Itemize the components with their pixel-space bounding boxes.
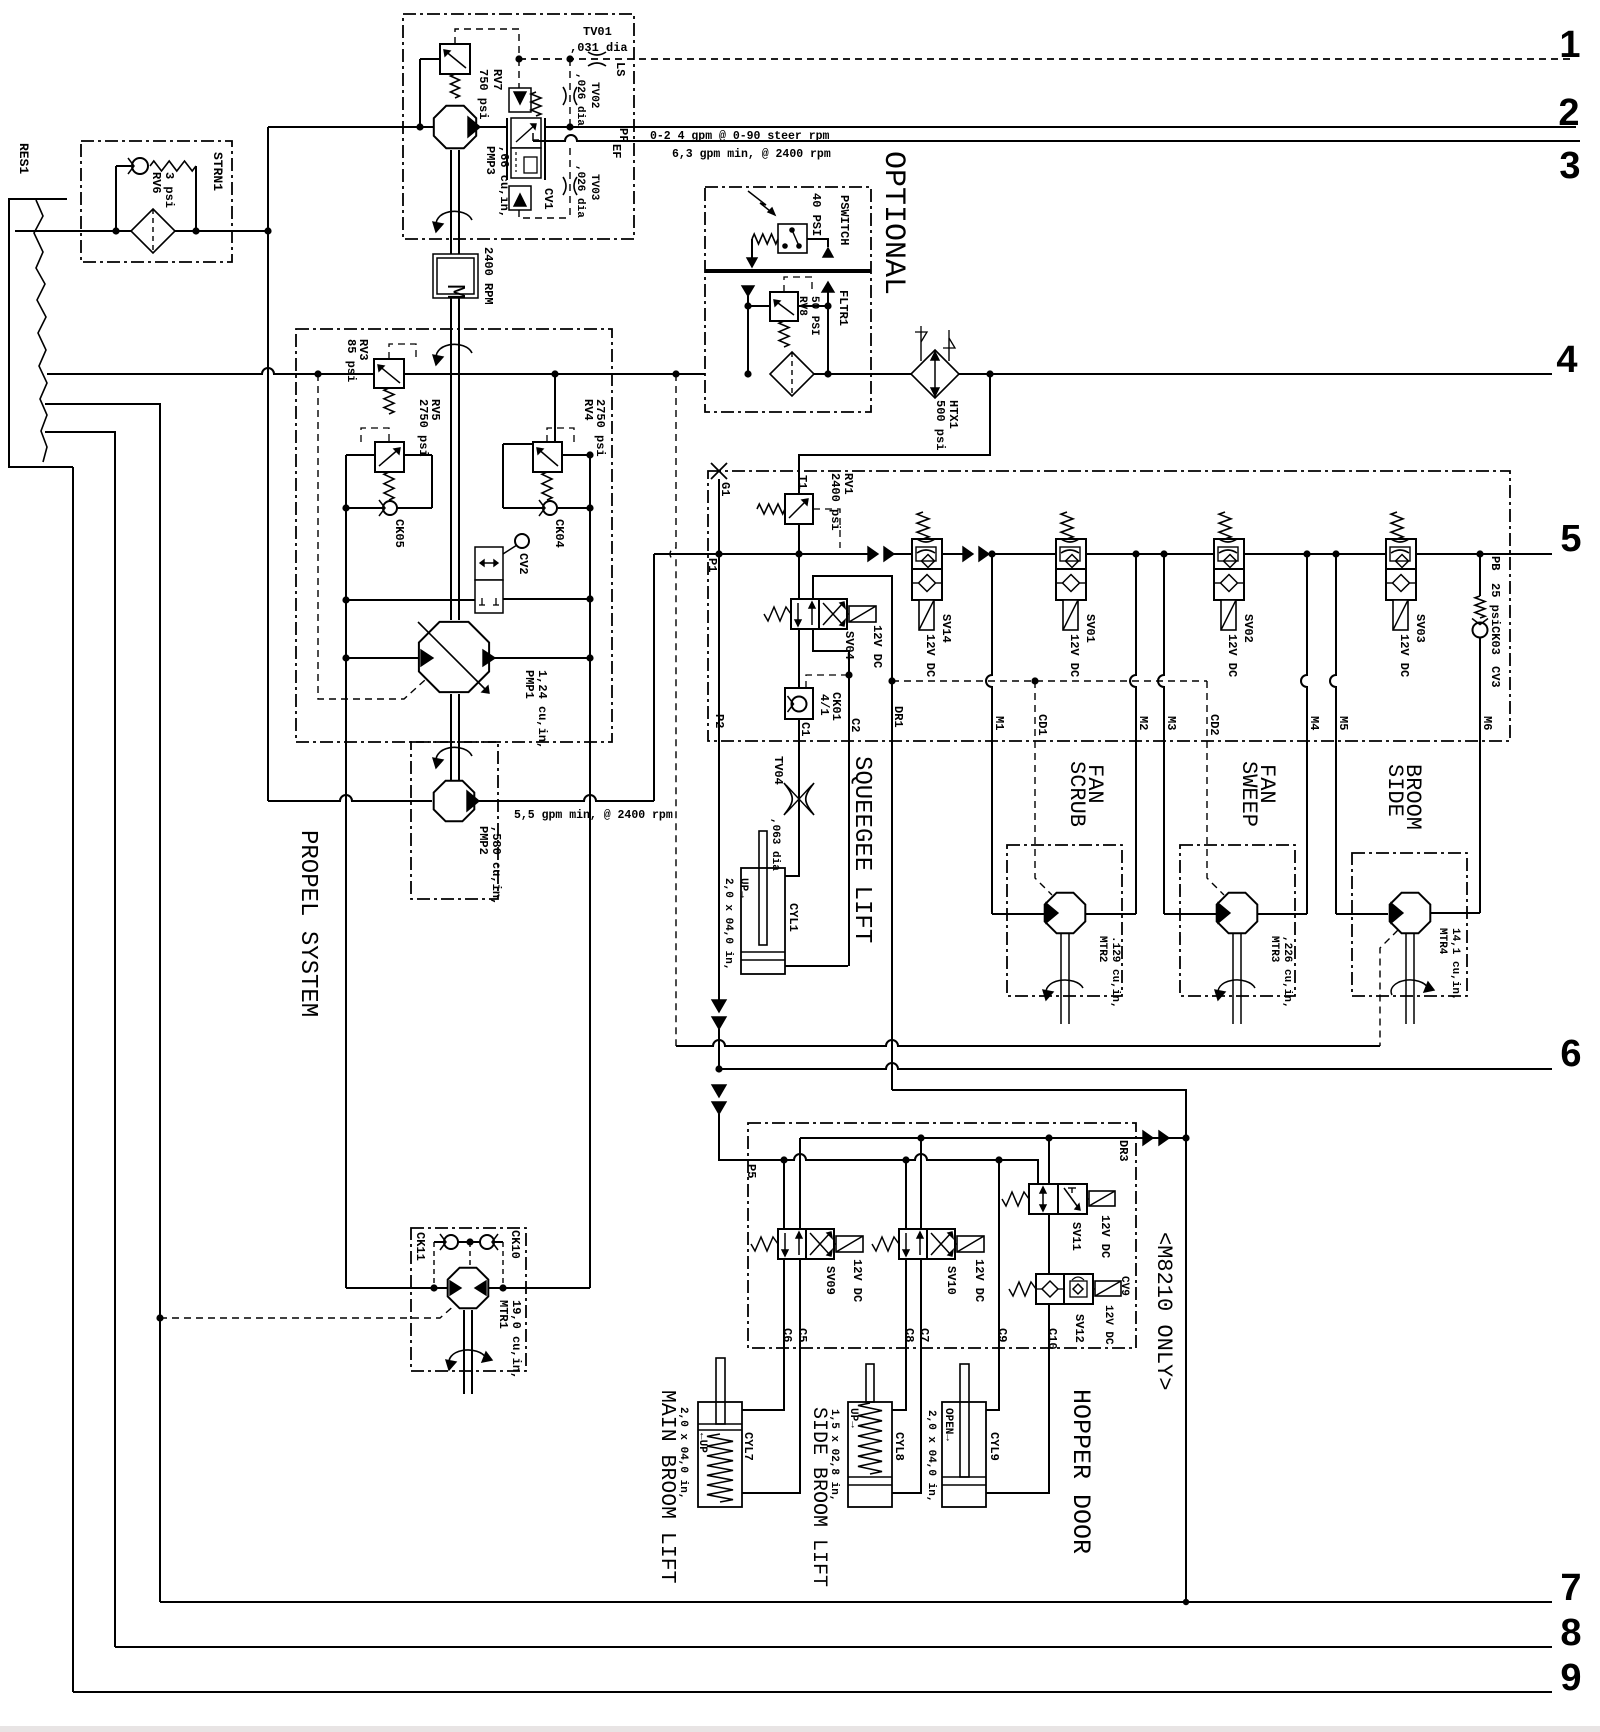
check valve CV3 spring [1475,596,1485,618]
svg-text:<M8210 ONLY>: <M8210 ONLY> [1151,1232,1176,1390]
relief valve RV4 spring [542,472,552,500]
svg-text:SV09: SV09 [823,1266,837,1295]
node M2 tee [1132,550,1139,557]
svg-text:M3: M3 [1164,716,1178,730]
svg-text:CK05: CK05 [392,519,406,548]
wire EF stub [532,133,534,141]
node dashed drop tee [672,370,679,377]
node C7 tee top [917,1134,924,1141]
motor MTR1 symbol [448,1268,489,1309]
wire G1 drop [718,479,720,554]
svg-text:CD1: CD1 [1035,714,1049,736]
servo valve CV2 arrows [480,562,498,564]
relief valve RV1 spring [757,504,785,514]
wire cross line upper [346,454,375,456]
svg-text:2400 psi: 2400 psi [828,473,842,531]
svg-text:2750 psi: 2750 psi [416,399,430,457]
squeegee pilot dashed drop [670,374,676,1046]
gauge port G1 cross [711,463,727,479]
svg-text:TV02: TV02 [588,82,600,108]
svg-text:,026 dia: ,026 dia [574,165,586,218]
motor MTR4 drain dash [1380,930,1398,1046]
wire cross line lower [346,507,383,509]
sweep fan box [1180,845,1295,996]
wire SV11 drop [1048,1138,1050,1184]
node MTR1 drain tee [156,1314,163,1321]
relief valve RV1 body [785,494,813,524]
node charge dashed tee [314,370,321,377]
solenoid valve SV11 solenoid [1089,1191,1115,1206]
solenoid valve SV11 arrows [1042,1188,1044,1210]
wire tank bottom to line 9 drop [72,467,74,1692]
svg-text:C1: C1 [798,722,812,736]
solenoid valve SV11 body [1029,1184,1058,1214]
svg-text:C8: C8 [902,1328,916,1342]
relief valve RV1 pilot dash [813,509,840,548]
relief valve RV7 pilot line [419,59,421,127]
svg-text:P5: P5 [744,1164,758,1178]
solenoid valve SV02 [1214,539,1244,569]
svg-text:MTR2: MTR2 [1096,936,1108,962]
optional divider [705,269,871,273]
svg-text:12V DC: 12V DC [1067,634,1081,677]
svg-text:MAIN BROOM LIFT: MAIN BROOM LIFT [655,1390,679,1584]
pump PMP2 boundary box [411,742,498,899]
wire tank outlet to line 8 drop [45,432,115,1647]
wire PB leg upper [1479,554,1481,596]
relief valve RV7 arrow [444,50,466,68]
svg-text:C7: C7 [917,1328,931,1342]
svg-text:CV9: CV9 [1118,1276,1130,1296]
svg-text:TV04: TV04 [771,756,785,785]
node DR3 junction [1182,1134,1189,1141]
svg-text:M5: M5 [1336,716,1350,730]
wire return line 8 [115,1646,1552,1648]
svg-text:12V DC: 12V DC [1098,1215,1112,1258]
svg-text:EF: EF [609,144,623,158]
wire line 4 from tank [47,368,296,374]
shaft MTR1 rotation arrow [449,1350,486,1365]
solenoid valve SV12 check [1042,1281,1058,1297]
wire C8 line [892,1259,906,1410]
svg-text:SV01: SV01 [1083,614,1097,643]
svg-text:T1: T1 [795,475,809,489]
wire TV04 to CYL1 [785,812,799,876]
relief valve RV6 check circle [116,165,131,167]
cylinder CYL8 body [848,1402,892,1507]
node RV8 left [744,302,751,309]
solenoid valve SV12 spring [1009,1282,1036,1296]
node filter left [744,370,751,377]
wire P2 drop 2 [718,1029,720,1069]
node P1 [715,550,722,557]
wire P2 to P5 [719,1114,784,1160]
svg-text:SIDE BROOM LIFT: SIDE BROOM LIFT [807,1407,830,1587]
flow arrows DR3 [1143,1131,1153,1145]
svg-text:6,3 gpm min, @ 2400 rpm: 6,3 gpm min, @ 2400 rpm [672,148,831,161]
drain dashed line 6 [676,1040,1380,1046]
node M4 tee [1303,550,1310,557]
cylinder CYL1 rod [759,831,767,945]
wire LS line 1 dashed [519,58,1573,60]
wire C9 line [986,1160,999,1410]
valve CV1 bottom check [509,186,531,210]
relief valve RV8 body [770,292,798,321]
relief valve RV4 pilot dash [547,428,574,442]
svg-text:RV3: RV3 [356,339,370,361]
node suction junction [264,227,271,234]
node P2 line6 [715,1065,722,1072]
pump PMP1 displacement arrow [418,622,489,693]
wire SV04 to CK01 [798,629,800,688]
wire SV04 to C2 jog [813,629,849,966]
svg-text:RES1: RES1 [16,143,31,174]
svg-text:HOPPER DOOR: HOPPER DOOR [1066,1389,1095,1554]
wire right loop vertical [589,455,591,1288]
svg-text:3: 3 [1559,145,1580,187]
relief valve RV3 body [374,359,404,388]
solenoid valve SV12 pilot box [1070,1281,1087,1297]
reservoir torn edge wavy line [34,200,47,462]
solenoid valve SV14 [912,539,942,569]
shaft PMP3 to motor [450,150,452,254]
svg-text:,226 cu,in,: ,226 cu,in, [1281,936,1293,1009]
valve CV1 spool upper box [511,118,541,148]
wire PMP3 outlet (PF) [478,126,507,128]
wire SV04 to DR1 [813,576,892,681]
side broom box [1352,853,1467,996]
wire return line 9 [73,1691,1552,1693]
wire M2 line [1130,554,1136,914]
svg-text:6: 6 [1560,1033,1581,1075]
svg-text:25 psi: 25 psi [1488,583,1502,626]
svg-text:PB: PB [1488,556,1502,570]
wire C5 line [742,1259,800,1493]
wire C10 line [986,1304,1049,1493]
svg-text:FLTR1: FLTR1 [836,290,850,326]
svg-text:C10: C10 [1045,1328,1059,1350]
node T1 riser tee [986,370,993,377]
wire return line 7 [160,1601,1552,1603]
node P5 tees [780,1156,787,1163]
wire P5 line [719,1159,784,1161]
relief valve RV8 spring [779,321,789,347]
propel system boundary box [296,329,612,742]
reservoir RES1 outline [9,199,73,467]
pump PMP3 symbol [434,106,476,148]
svg-text:12V DC: 12V DC [923,634,937,677]
svg-text:CV2: CV2 [516,553,530,575]
node M3 tee [1160,550,1167,557]
solenoid valve SV01 [1056,539,1086,569]
wire RV4 riser [554,374,556,444]
charge pilot dashed [318,374,425,699]
svg-text:SV14: SV14 [939,614,953,643]
svg-text:SV02: SV02 [1241,614,1255,643]
svg-text:85 psi: 85 psi [344,339,358,382]
svg-text:5,5 gpm min, @ 2400 rpm: 5,5 gpm min, @ 2400 rpm [514,809,673,822]
case drain CD1 dash [1035,681,1052,895]
svg-text:SV10: SV10 [944,1266,958,1295]
svg-text:FAN: FAN [1254,764,1279,804]
pressure switch PSWITCH actuator arrow [748,191,775,215]
svg-text:UP→: UP→ [737,878,749,898]
shaft rotation arrow 2 [436,344,472,360]
check valve CK10 circle [480,1235,494,1249]
svg-text:SQUEEGEE LIFT: SQUEEGEE LIFT [848,756,875,943]
check valve CK11 circle [444,1235,458,1249]
svg-text:FAN: FAN [1082,764,1107,804]
needle valve TV04 [784,783,792,815]
orifice TV02 [563,87,566,105]
wire line 4 filter to HTX1 [814,373,911,375]
wire line 6 [719,1063,1552,1069]
flow arrows P line b [963,547,973,561]
svg-text:0-2 4 gpm @ 0-90 steer rpm: 0-2 4 gpm @ 0-90 steer rpm [650,130,830,143]
relief valve RV7 body [440,44,470,74]
relief valve RV5 pilot dash [361,428,389,442]
svg-text:RV7: RV7 [490,69,504,91]
wire SV09 top right riser [799,1138,801,1229]
valve CV1 pilot dash bottom [519,210,570,218]
electric motor M box [433,254,478,298]
node RV7 tee [416,123,423,130]
svg-text:12V DC: 12V DC [1397,634,1411,677]
svg-text:M: M [440,284,470,300]
svg-text:PMP1: PMP1 [522,670,536,699]
motor MTR4 shaft [1405,934,1407,1024]
node LS TV02 tee [566,55,573,62]
svg-text:TV03: TV03 [588,174,600,201]
manifold boundary box [708,471,1510,741]
cylinder CYL9 body [942,1402,986,1507]
wire EF line 3 [533,135,1580,141]
orifice TV02 dash leg [569,59,571,127]
flow arrows P line a [868,547,878,561]
shaft motor to PMP1 [450,298,452,620]
cylinder CYL8 rod [866,1364,874,1402]
optional boundary box [705,187,871,412]
shaft PMP1 to PMP2 [450,694,452,780]
heat exchanger HTX1 arrow [934,354,936,394]
svg-text:PMP2: PMP2 [476,826,490,855]
svg-text:SV11: SV11 [1069,1222,1083,1251]
check valve CK04 [543,501,557,515]
relief valve RV4 arrow [537,448,558,466]
svg-text:19,0 cu,in,: 19,0 cu,in, [509,1300,523,1379]
solenoid valve SV10 [899,1229,927,1259]
svg-text:12V DC: 12V DC [1102,1305,1114,1345]
flow arrows P2 b [712,1085,726,1097]
svg-text:12V DC: 12V DC [1225,634,1239,677]
svg-text:CV1: CV1 [541,188,555,210]
wire PF line 2 [545,126,1576,128]
relief valve RV5 arrow [379,448,400,466]
strainer STRN1 boundary box [81,141,232,262]
svg-text:SV03: SV03 [1413,614,1427,643]
filter FLTR1 right leg [827,292,829,374]
svg-text:7: 7 [1560,1567,1581,1609]
svg-text:,063 dia: ,063 dia [769,818,781,871]
shaft rotation arrow 3 [436,747,472,763]
svg-text:CYL7: CYL7 [741,1432,755,1461]
relief valve RV3 pilot dash [389,344,416,359]
relief valve RV6 bypass left leg [115,166,117,231]
svg-text:LS: LS [613,62,627,76]
relief valve RV8 wires [748,305,770,307]
wire P5 to SV09 [783,1160,785,1229]
wire PMP2 outlet [477,795,654,801]
svg-text:2: 2 [1558,92,1579,134]
svg-text:50 PSI: 50 PSI [808,296,820,336]
relief valve RV8 arrow [774,300,794,315]
svg-text:.129 cu,in,: .129 cu,in, [1109,936,1121,1009]
pump PMP2 symbol [434,781,475,822]
wire CV2 cross right [503,598,590,600]
svg-text:G1: G1 [718,482,732,496]
drain line dashed [892,680,1207,682]
node CD1 tee [1031,677,1038,684]
wire DR drop to line7 [1185,1138,1187,1602]
node LS pilot [515,55,522,62]
svg-text:MTR1: MTR1 [496,1300,510,1329]
solenoid valve SV03 [1386,539,1416,569]
valve CV1 spool lower box [511,148,541,178]
relief valve RV7 pilot dash [455,29,519,59]
wire SV11 to SV12 [1048,1214,1050,1274]
svg-text:2400 RPM: 2400 RPM [481,247,495,305]
wire supply line 5 [654,553,868,555]
check valve CK01 body [785,688,813,719]
pump PMP3 boundary box [403,14,634,239]
heat exchanger HTX1 stems [920,332,922,361]
wire right loop to MTR1 [489,1287,590,1289]
pressure switch PSWITCH box [778,224,807,253]
svg-text:12V DC: 12V DC [850,1259,864,1302]
check valve CK05 [383,501,397,515]
cylinder CYL1 body [741,868,785,974]
svg-text:,580 cu,in,: ,580 cu,in, [489,826,503,905]
node DR1 [888,677,895,684]
svg-text:CD2: CD2 [1207,714,1221,736]
wire charge line 4 through propel [296,373,403,375]
pump PMP1 triangles [421,650,433,666]
filter FLTR1 left leg [747,296,749,374]
wire C6 line [742,1259,784,1410]
orifice TV01 [588,52,606,55]
svg-text:CYL1: CYL1 [786,903,800,932]
svg-text:←UP: ←UP [696,1433,708,1453]
check valve CK11 leg dash [433,1242,435,1288]
node TV02 on PF [566,123,573,130]
relief valve RV6 bypass right leg [195,166,197,231]
svg-text:MTR3: MTR3 [1268,936,1280,963]
node M5 tee [1332,550,1339,557]
drain line DR3 internal [800,1137,1186,1139]
wire P5 to SV10 [905,1160,907,1229]
svg-text:CK01: CK01 [829,692,843,721]
svg-text:4: 4 [1556,339,1577,381]
relief valve RV3 spring [384,388,394,414]
solenoid valve SV12 body [1036,1274,1064,1304]
cylinder CYL7 rod [716,1358,725,1424]
wire P2 drop [718,554,720,1000]
svg-text:CYL9: CYL9 [987,1432,1001,1461]
svg-text:4/1: 4/1 [817,694,831,716]
svg-text:HTX1: HTX1 [946,400,960,429]
orifice TV03 [563,177,566,195]
wire DR1 drop [891,681,893,1090]
solenoid valve SV09 [778,1229,806,1259]
svg-text:RV6: RV6 [149,172,163,194]
cylinder CYL7 body [698,1402,742,1507]
solenoid valve SV12 solenoid [1095,1281,1121,1296]
cylinder CYL8 spring [858,1403,882,1474]
pressure switch PSWITCH contacts [789,227,795,233]
wire check bridge [434,1241,444,1243]
svg-text:M1: M1 [992,716,1006,730]
svg-text:RV5: RV5 [428,399,442,421]
svg-text:12V DC: 12V DC [870,625,884,668]
motor MTR3 shaft [1232,934,1234,1024]
node MTR1 ports [430,1284,437,1291]
pump PMP1 symbol [419,622,489,692]
wire C1 line [798,719,800,876]
svg-text:P1: P1 [705,558,719,572]
valve CV1 pilot dash top [518,59,520,88]
motor MTR1 boundary box [411,1228,526,1371]
wire M6 line [1479,638,1481,913]
node M1 tee [988,550,995,557]
wire M5 line [1330,554,1336,914]
wire suction riser [267,127,269,801]
wire left loop vertical [345,455,347,1288]
svg-text:CK04: CK04 [552,519,566,548]
svg-text:CYL8: CYL8 [892,1432,906,1461]
relief valve RV1 arrow [789,499,808,518]
svg-text:40 PSI: 40 PSI [809,193,823,236]
svg-text:14,1 cu,in,: 14,1 cu,in, [1449,928,1461,1001]
svg-text:2750 psi: 2750 psi [593,399,607,457]
pressure switch right leg [807,239,828,247]
node filter right [824,370,831,377]
orifice TV03 dash leg [569,148,571,218]
node RV4 riser [551,370,558,377]
wire PMP2 suction [268,795,432,801]
relief valve RV8 pilot dash [784,277,812,292]
svg-text:M6: M6 [1480,716,1494,730]
svg-text:C6: C6 [780,1328,794,1342]
svg-text:PSWITCH: PSWITCH [837,195,851,245]
shaft MTR1 [463,1310,465,1394]
svg-text:12V DC: 12V DC [972,1259,986,1302]
shaft rotation arrow [436,211,472,227]
wire C2 to CYL1 [785,965,848,967]
pressure switch PSWITCH spring [752,234,778,244]
motor MTR1 case drain dash [160,1304,456,1318]
relief valve RV7 spring [451,74,460,98]
node loop dots [342,504,349,511]
solenoid valve SV04 [791,599,819,629]
relief valve RV7 wire to body [420,58,440,60]
svg-text:500 psi: 500 psi [933,400,947,450]
wire RV1 to P line [798,524,800,554]
solenoid valve SV04 feed [798,554,800,599]
wire M1 line [986,554,992,914]
svg-text:RV4: RV4 [581,399,595,421]
svg-text:,031 dia: ,031 dia [570,41,628,55]
wire line 4 propel to optional [612,373,705,375]
